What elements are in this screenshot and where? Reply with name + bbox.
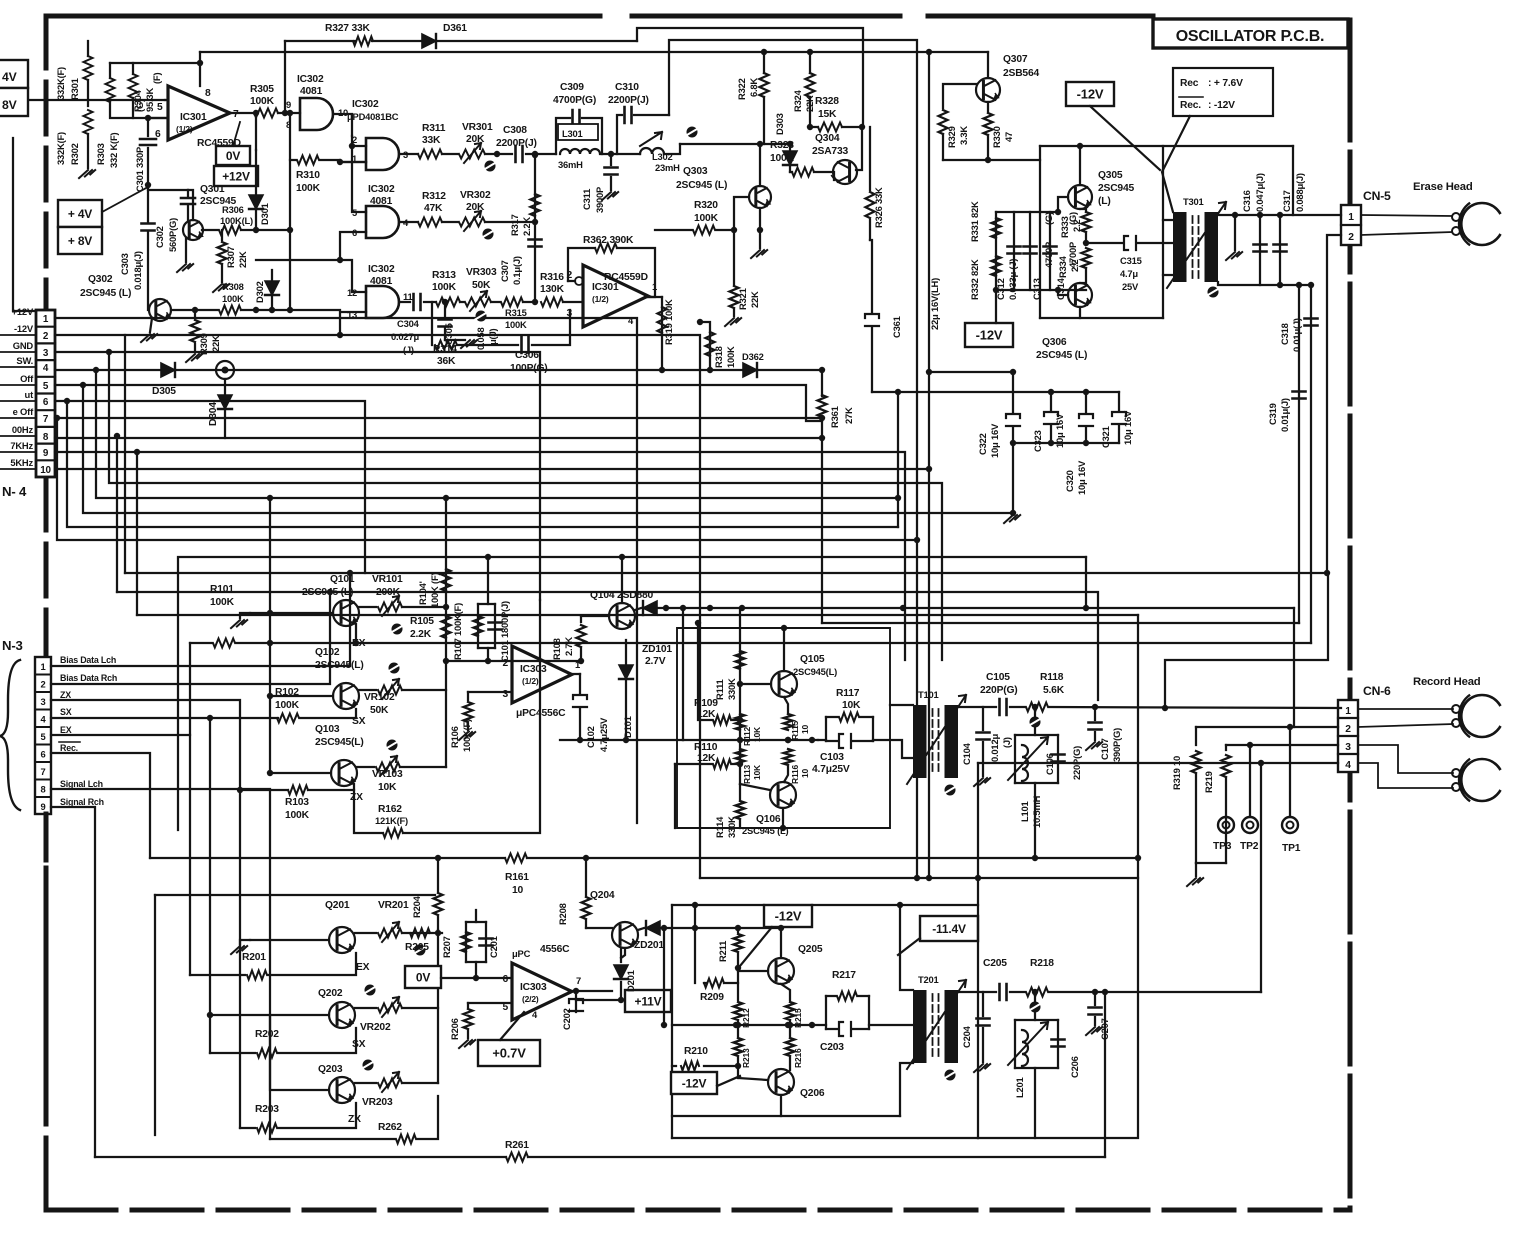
svg-text:+ 8V: + 8V: [68, 234, 92, 248]
svg-text:R305: R305: [250, 84, 274, 95]
rail B caps: [872, 391, 1119, 393]
svg-text:10: 10: [40, 465, 51, 476]
svg-text:5KHz: 5KHz: [10, 457, 33, 468]
svg-text:+12V: +12V: [222, 169, 250, 183]
svg-text:0.047μ(J): 0.047μ(J): [1254, 173, 1265, 212]
resistor R319 head: [1195, 727, 1197, 745]
wire CN-4 pin3 bus: [55, 352, 540, 600]
wire y63 short: [110, 62, 200, 64]
capacitor C321: [1118, 392, 1120, 411]
svg-text:9: 9: [286, 99, 291, 110]
wire zd101 out: [657, 607, 700, 609]
transistor Q304: [833, 160, 857, 184]
wire signal lch riser: [51, 789, 270, 1139]
ground Q101 base: [240, 613, 250, 618]
box -12V record upper: [764, 905, 812, 927]
svg-text:R311: R311: [422, 123, 446, 134]
transistor Q101: [333, 600, 359, 626]
svg-text:50K: 50K: [370, 705, 389, 716]
wire CN-6 pin3 bus: [1226, 744, 1338, 746]
svg-text:Bias Data Lch: Bias Data Lch: [60, 655, 116, 665]
svg-text:R216: R216: [793, 1048, 803, 1068]
svg-text:VR103: VR103: [372, 769, 403, 780]
svg-text:C202: C202: [561, 1008, 572, 1030]
svg-text:332K(F): 332K(F): [55, 67, 66, 100]
capacitor C313: [1029, 212, 1031, 290]
svg-text:R301: R301: [69, 78, 80, 100]
wire y623: [822, 622, 1299, 624]
wire CN-4 pin9 bus: [55, 452, 905, 660]
svg-text:IC301: IC301: [592, 282, 619, 293]
box +4V: [58, 200, 102, 227]
box -12V record lower: [671, 1072, 717, 1094]
svg-text:560P(G): 560P(G): [167, 218, 178, 252]
svg-text:Erase Head: Erase Head: [1413, 181, 1473, 193]
transistor Q205: [768, 958, 794, 984]
transistor Q105: [771, 671, 797, 697]
wire Q205 base: [738, 970, 768, 972]
resistor R101: [190, 642, 212, 644]
svg-text:Q303: Q303: [683, 166, 708, 177]
wire CN-6 pin1 to head: [1358, 708, 1453, 710]
svg-text:μPC4556C: μPC4556C: [516, 708, 566, 719]
svg-text:N-3: N-3: [2, 638, 23, 653]
wire gateC in6: [256, 232, 366, 260]
wire CN-4 left stubs: [0, 334, 36, 336]
wire CN-5 pin2 drop: [1327, 235, 1341, 573]
svg-text:11: 11: [403, 291, 413, 302]
svg-text:C310: C310: [615, 82, 639, 93]
resistor R104: [442, 569, 451, 591]
svg-text:C318: C318: [1279, 323, 1290, 345]
transformer T101: [913, 705, 927, 778]
svg-text:RC4559D: RC4559D: [604, 272, 648, 283]
svg-text:(1/2): (1/2): [522, 676, 539, 686]
svg-text:C311: C311: [581, 189, 592, 210]
staircase wire d: [96, 370, 898, 498]
resistor R307: [221, 230, 223, 240]
resistor R327: [353, 37, 373, 46]
capacitor C204: [958, 991, 996, 993]
resistor R326: [869, 127, 871, 190]
svg-text:R306: R306: [222, 204, 244, 215]
CN-3 lower border dashes: [44, 814, 49, 1208]
capacitor C320: [1085, 392, 1087, 413]
svg-text:C201: C201: [488, 936, 499, 958]
transistor Q103: [331, 760, 357, 786]
svg-text:2SC945 (L): 2SC945 (L): [80, 288, 131, 299]
resistor R302: [84, 110, 93, 134]
svg-text:R206: R206: [449, 1018, 460, 1040]
wire VR101-103 common: [402, 689, 446, 691]
wire Q204 emitter: [621, 948, 625, 958]
variable resistor VR102: [359, 689, 376, 691]
svg-text:5: 5: [43, 381, 49, 392]
wire IC303a out: [569, 673, 580, 675]
bus wire y615 left riser: [136, 452, 138, 615]
svg-text:R323: R323: [770, 140, 794, 151]
svg-text:100K: 100K: [432, 282, 457, 293]
svg-text:22μ 16V(LH): 22μ 16V(LH): [929, 278, 940, 330]
wire R101 to Q101: [236, 642, 1311, 644]
svg-text:D101: D101: [622, 716, 633, 738]
svg-text:VR101: VR101: [372, 574, 403, 585]
resistor R362: [595, 244, 617, 253]
svg-text:3: 3: [40, 696, 45, 707]
CN-3 brace: [0, 660, 20, 810]
svg-text:2SC945(L): 2SC945(L): [315, 737, 364, 748]
resistor R217: [837, 992, 857, 1001]
svg-text:CN-6: CN-6: [1363, 684, 1391, 698]
svg-text:C319: C319: [1267, 403, 1278, 425]
svg-text:27K: 27K: [843, 407, 854, 424]
variable resistor VR101: [359, 606, 376, 608]
svg-text:R208: R208: [557, 903, 568, 925]
svg-text:C205: C205: [983, 958, 1007, 969]
capacitor C319: [1298, 285, 1300, 623]
svg-text:Bias Data Rch: Bias Data Rch: [60, 673, 117, 683]
caps bottom rail: [1013, 442, 1119, 444]
ground C107: [1086, 742, 1102, 750]
wire Q206 emitter drop: [780, 1095, 782, 1116]
wire R316 to IC301b: [563, 301, 583, 303]
diode D101: [625, 640, 627, 740]
wire Q104 top: [621, 557, 623, 603]
staircase wire b: [67, 401, 898, 527]
capacitor C305: [444, 302, 446, 318]
svg-text:130K: 130K: [540, 284, 565, 295]
resistor R361: [821, 370, 823, 396]
svg-text:C321: C321: [1100, 426, 1111, 448]
wire pin2 net to bias feed: [1165, 573, 1328, 708]
svg-text:100P(G): 100P(G): [510, 363, 548, 374]
resistor R313: [436, 298, 460, 307]
wire R162 out: [403, 600, 540, 833]
svg-text:R307: R307: [225, 246, 236, 268]
wire T301 secondary bottom: [1218, 282, 1311, 285]
wire IC303b out: [569, 990, 612, 992]
svg-text:220P(G): 220P(G): [980, 685, 1018, 696]
svg-text:+11V: +11V: [635, 994, 662, 1008]
wire to Q304 base: [856, 127, 862, 170]
wire x290 column: [289, 113, 291, 310]
svg-text:R219: R219: [1203, 771, 1214, 793]
wire loop to T101 bias: [873, 740, 913, 758]
svg-text:D304: D304: [208, 402, 219, 426]
svg-text:R361: R361: [829, 406, 840, 428]
capacitor C304: [414, 294, 421, 310]
wire T301 secondary top: [1218, 214, 1341, 216]
svg-text:4081: 4081: [370, 276, 393, 287]
svg-text:SX: SX: [60, 707, 72, 717]
svg-text:Q304: Q304: [815, 133, 840, 144]
resistor R212: [734, 1002, 743, 1020]
svg-text:R315: R315: [505, 307, 527, 318]
svg-text:4081: 4081: [370, 196, 393, 207]
svg-text:R261: R261: [505, 1140, 529, 1151]
svg-text:5.6K: 5.6K: [1043, 685, 1065, 696]
column x270: [269, 498, 271, 773]
capacitor C103: [839, 734, 851, 748]
svg-text:10: 10: [800, 768, 810, 778]
ground Q201 base: [240, 940, 250, 944]
capacitor C308: [516, 146, 523, 162]
wire loop to T201: [869, 1024, 913, 1026]
svg-text:VR201: VR201: [378, 900, 409, 911]
svg-text:: + 7.6V: : + 7.6V: [1208, 78, 1243, 89]
svg-text:2: 2: [40, 679, 45, 690]
resistor R262: [270, 1138, 395, 1140]
wire Q306 emitter: [1079, 307, 1081, 318]
svg-text:Q101: Q101: [330, 574, 355, 585]
wire T301 primary bottom: [1163, 274, 1173, 276]
svg-text:2: 2: [43, 331, 49, 342]
svg-text:VR102: VR102: [364, 692, 395, 703]
border frame top: [46, 14, 600, 19]
capacitor C315: [1086, 242, 1122, 244]
box -12V lower: [965, 323, 1013, 347]
wire y100 input: [28, 99, 165, 101]
svg-text:Signal Rch: Signal Rch: [60, 797, 104, 807]
wire ZX from CN-3: [51, 700, 288, 790]
svg-text:13: 13: [347, 309, 357, 320]
svg-text:R330: R330: [991, 126, 1002, 148]
ground C204: [974, 1064, 990, 1072]
svg-text:R162: R162: [378, 804, 402, 815]
wire y52 upper: [200, 51, 988, 53]
wire R310 to gateB: [320, 160, 366, 162]
svg-text:95.3K: 95.3K: [144, 88, 155, 112]
erase head symbol: [1461, 203, 1503, 245]
svg-text:332 K(F): 332 K(F): [108, 133, 119, 168]
wire Q106 emitter: [782, 808, 784, 828]
wire R102 to Q102 emitter: [300, 709, 356, 718]
wire C306 up: [532, 310, 570, 345]
svg-text:Q204: Q204: [590, 890, 615, 901]
svg-text:R111: R111: [714, 679, 725, 700]
svg-text:R324: R324: [792, 89, 803, 112]
svg-text:(G): (G): [1043, 212, 1054, 225]
resistor R111: [736, 651, 745, 669]
wire Q105 base: [740, 683, 771, 685]
svg-text:25V: 25V: [1122, 281, 1139, 292]
svg-text:100K: 100K: [505, 319, 527, 330]
svg-text:C301 330P: C301 330P: [134, 147, 145, 192]
svg-text:Signal Lch: Signal Lch: [60, 779, 103, 789]
staircase wire a: [57, 418, 917, 540]
wire D201 to output: [576, 999, 621, 1001]
svg-text:4556C: 4556C: [540, 944, 570, 955]
wire record return: [1104, 992, 1106, 1157]
svg-text:6: 6: [155, 129, 161, 140]
svg-text:7: 7: [576, 975, 581, 986]
bus wire y573: [125, 572, 1327, 574]
svg-text:Q105: Q105: [800, 654, 825, 665]
bus wire y592 left riser: [116, 436, 118, 592]
svg-text:2.2K: 2.2K: [521, 217, 532, 236]
staircase wire c: [83, 385, 1013, 513]
ground R206: [467, 1030, 469, 1038]
svg-text:ut: ut: [25, 389, 34, 400]
resistor R215: [781, 984, 790, 1000]
svg-text:Q302: Q302: [88, 274, 113, 285]
svg-text:TP1: TP1: [1282, 843, 1301, 854]
capacitor C302: [187, 190, 189, 196]
svg-text:R107 100K(F): R107 100K(F): [452, 603, 463, 660]
ground C104: [974, 778, 990, 786]
svg-text:2SC945(L): 2SC945(L): [315, 660, 364, 671]
svg-text:-12V: -12V: [14, 323, 34, 334]
wire gateB out to R311: [399, 153, 418, 155]
svg-text:100K: 100K: [222, 293, 244, 304]
inductor L302 tank: [617, 115, 622, 154]
svg-text:6: 6: [40, 749, 45, 760]
svg-text:1: 1: [40, 661, 45, 672]
resistor R330: [987, 102, 989, 112]
svg-text:C302: C302: [154, 226, 165, 248]
capacitor C318: [1310, 285, 1312, 643]
svg-text:6.8K: 6.8K: [748, 78, 759, 97]
inductor L301 tank: [556, 118, 570, 154]
svg-text:C315: C315: [1120, 255, 1142, 266]
resistor R310: [290, 159, 296, 161]
svg-text:R303: R303: [95, 143, 106, 165]
svg-text:SW.: SW.: [16, 355, 33, 366]
capacitor C306: [522, 337, 529, 353]
svg-text:+0.7V: +0.7V: [492, 1046, 526, 1061]
svg-text:(J): (J): [1001, 737, 1012, 748]
op-amp IC301 second half: [583, 265, 648, 327]
op-amp IC303 first half: [512, 646, 572, 703]
svg-text:R106: R106: [449, 726, 460, 748]
resistor R218: [1010, 991, 1025, 993]
svg-text:100K: 100K: [770, 153, 795, 164]
svg-text:Q202: Q202: [318, 988, 343, 999]
svg-text:IC302: IC302: [368, 264, 395, 275]
svg-text:R161: R161: [505, 872, 529, 883]
wire R118 to CN-6: [1049, 707, 1341, 708]
svg-text:0.027μ: 0.027μ: [391, 331, 419, 342]
svg-text:C303: C303: [119, 253, 130, 275]
wire CN-6 pin4 bus: [978, 762, 1338, 764]
svg-text:100K (F): 100K (F): [429, 573, 440, 608]
svg-text:R310: R310: [296, 170, 320, 181]
wire box to T101 primary top: [890, 704, 913, 706]
wire Q307 collector top: [987, 52, 989, 78]
wire Q102 base: [270, 695, 333, 697]
wire Q305 base: [1058, 197, 1068, 212]
wire pin4 drop: [977, 763, 979, 1138]
svg-text:4.7μ: 4.7μ: [1120, 268, 1138, 279]
resistor R304: [129, 74, 138, 98]
capacitor C102: [579, 674, 581, 694]
svg-text:R318: R318: [713, 346, 724, 368]
wire R311 to VR301: [442, 153, 458, 155]
gate IC302b: [366, 138, 399, 170]
diode D305: [161, 363, 175, 377]
svg-text:2200P(J): 2200P(J): [608, 95, 649, 106]
svg-text:7KHz: 7KHz: [10, 440, 33, 451]
wire CN-4 pin5 bus: [55, 385, 822, 421]
bus wire y592: [117, 592, 1098, 700]
svg-text:T301: T301: [1183, 196, 1204, 207]
loop R117 C103: [818, 739, 826, 741]
svg-text:4: 4: [43, 363, 49, 374]
wire Q204 base: [586, 927, 612, 929]
wire gateA out: [333, 114, 352, 136]
diode D361: [422, 34, 436, 48]
capacitor C316: [1259, 215, 1261, 285]
wire Q303 collector: [759, 144, 761, 186]
resistor R116: [784, 749, 793, 765]
svg-text:e Off: e Off: [13, 406, 34, 417]
box 8V: [0, 88, 28, 116]
wire pin2 node ext: [512, 660, 581, 662]
capacitor C101: [489, 623, 502, 630]
svg-text:C107: C107: [1099, 738, 1110, 760]
svg-text:C104: C104: [961, 742, 972, 765]
svg-text:R117: R117: [836, 688, 860, 699]
svg-text:L302: L302: [652, 151, 673, 162]
wire C101 loop stubs: [487, 557, 489, 604]
svg-text:12K: 12K: [697, 753, 716, 764]
svg-text:C316: C316: [1241, 190, 1252, 212]
transistor Q202: [329, 1002, 355, 1028]
svg-text:C102: C102: [585, 726, 596, 748]
wire tank bottom: [1034, 783, 1036, 858]
svg-text:R312: R312: [422, 191, 446, 202]
svg-text:R112: R112: [742, 726, 752, 746]
svg-text:100K: 100K: [694, 213, 719, 224]
record head symbol lower: [1461, 759, 1503, 801]
capacitor C322: [1012, 372, 1014, 413]
svg-text:C304: C304: [397, 318, 420, 329]
resistor R329: [943, 84, 976, 108]
svg-text:10K: 10K: [752, 764, 762, 780]
transistor Q305: [1068, 185, 1092, 209]
transistor Q204: [612, 922, 638, 948]
record output block outline: [672, 904, 764, 906]
svg-text:2SB564: 2SB564: [1003, 68, 1039, 79]
svg-text:T201: T201: [918, 974, 939, 985]
svg-text:(L): (L): [1098, 196, 1111, 207]
gate IC302c: [366, 206, 399, 238]
ground R319: [1195, 863, 1197, 876]
wire Q206 base: [738, 1078, 768, 1080]
resistor R306: [202, 229, 218, 231]
svg-text:R218: R218: [1030, 958, 1054, 969]
transistor Q203: [329, 1077, 355, 1103]
rail A caps: [929, 371, 1013, 373]
transistor Q306: [1068, 283, 1092, 307]
svg-text:Off: Off: [20, 373, 34, 384]
diode D303: [789, 144, 791, 172]
svg-text:R201: R201: [242, 952, 266, 963]
svg-text:(1/2): (1/2): [592, 294, 609, 304]
svg-text:2SC945 (L): 2SC945 (L): [676, 180, 727, 191]
svg-text:TP2: TP2: [1240, 841, 1259, 852]
wire Q103 base: [270, 772, 331, 774]
transistor Q201: [329, 927, 355, 953]
loop R207 C201: [438, 932, 442, 934]
svg-text:R317: R317: [509, 214, 520, 236]
svg-text:20K: 20K: [466, 202, 485, 213]
svg-text:L201: L201: [1014, 1077, 1025, 1098]
wire CN-4 pin2 bus: [55, 335, 700, 878]
wire VR302 out: [485, 221, 535, 223]
wire Q306 base: [1058, 290, 1068, 295]
svg-text:15K: 15K: [818, 109, 837, 120]
